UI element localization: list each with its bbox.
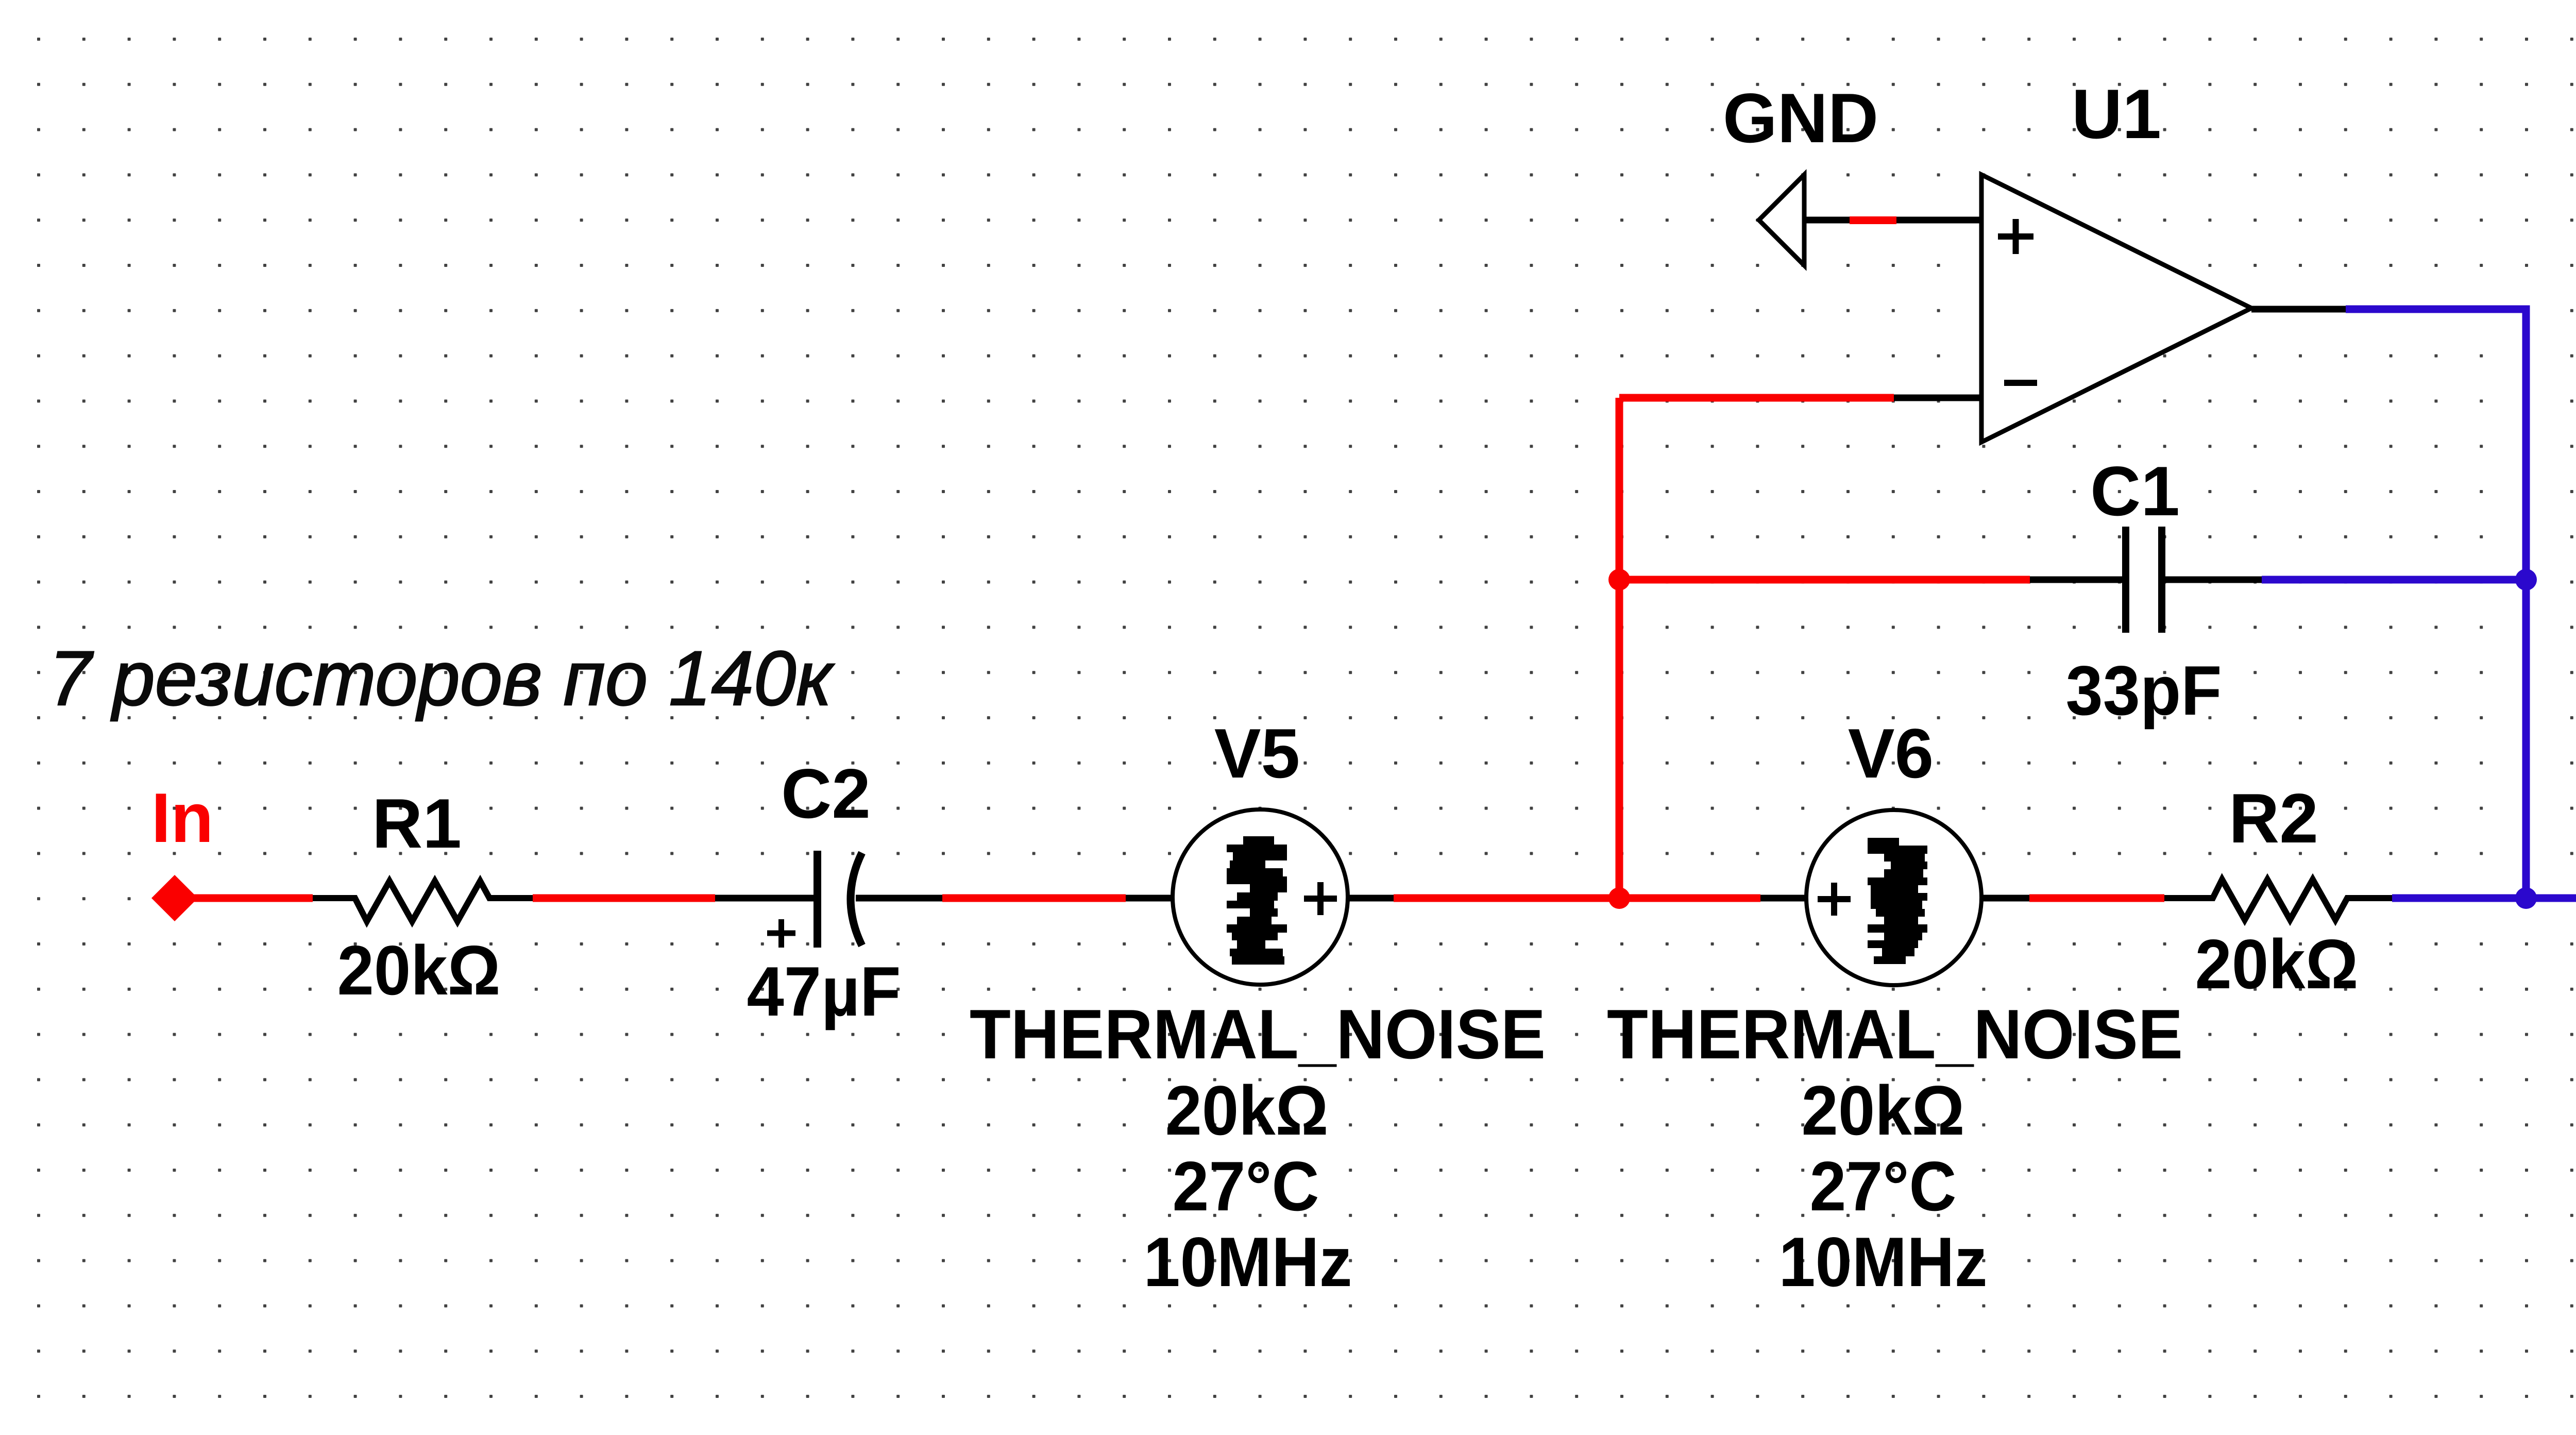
wire node B to node C [2526,894,2576,902]
wire ground to op-amp + input [1804,216,1981,224]
wire R1 to C2 [533,894,715,902]
svg-text:7 резисторов по 140к: 7 резисторов по 140к [49,635,835,721]
wire node D to C1 [1619,576,2030,584]
svg-text:27°C: 27°C [1810,1147,1957,1225]
resistor R1 [313,881,536,921]
junction node A [1608,887,1630,909]
wire V5 to node A [1394,894,1619,902]
svg-text:10MHz: 10MHz [1779,1223,1988,1301]
svg-text:20kΩ: 20kΩ [337,931,501,1009]
wire node E to node B [2522,580,2530,898]
source V6 [1760,810,2029,985]
svg-text:47µF: 47µF [747,952,901,1031]
svg-text:V5: V5 [1214,714,1300,792]
svg-text:In: In [151,779,214,857]
svg-text:33pF: 33pF [2066,651,2222,730]
node In [151,875,198,921]
svg-text:R1: R1 [372,784,462,863]
wire C2 to V5 [942,894,1126,902]
svg-text:C1: C1 [2090,452,2180,530]
wire node A to V6 [1619,894,1760,902]
svg-text:20kΩ: 20kΩ [2195,925,2359,1003]
wire node D to op-amp inverting input [1616,394,1982,580]
capacitor C1 [2030,527,2262,633]
svg-text:10MHz: 10MHz [1144,1223,1352,1301]
svg-text:20kΩ: 20kΩ [1802,1071,1965,1150]
svg-text:THERMAL_NOISE: THERMAL_NOISE [1607,995,2183,1073]
svg-text:27°C: 27°C [1173,1147,1319,1225]
wire V6 to R2 [2029,894,2164,902]
capacitor C2 [715,851,942,948]
ground symbol (op-amp non-inverting input) [1759,175,1804,265]
svg-text:U1: U1 [2072,75,2161,153]
svg-text:THERMAL_NOISE: THERMAL_NOISE [970,995,1546,1073]
junction node E [2515,569,2537,590]
svg-text:20kΩ: 20kΩ [1165,1071,1329,1150]
svg-text:V6: V6 [1848,714,1934,792]
wire In to R1 [175,894,313,902]
wire C1 to node E [2262,576,2526,584]
wire R2 to node B [2392,894,2526,902]
wire U1 output to node E (blue corner) [2251,306,2530,580]
svg-text:R2: R2 [2229,779,2318,857]
op-amp U1 [1981,175,2251,442]
source V5 [1126,809,1394,985]
svg-text:GND: GND [1723,79,1878,157]
svg-text:C2: C2 [781,754,871,833]
resistor R2 [2164,880,2392,920]
junction node B [2515,887,2537,909]
junction node D [1608,569,1630,590]
wire node A to node D (vertical) [1616,580,1623,898]
